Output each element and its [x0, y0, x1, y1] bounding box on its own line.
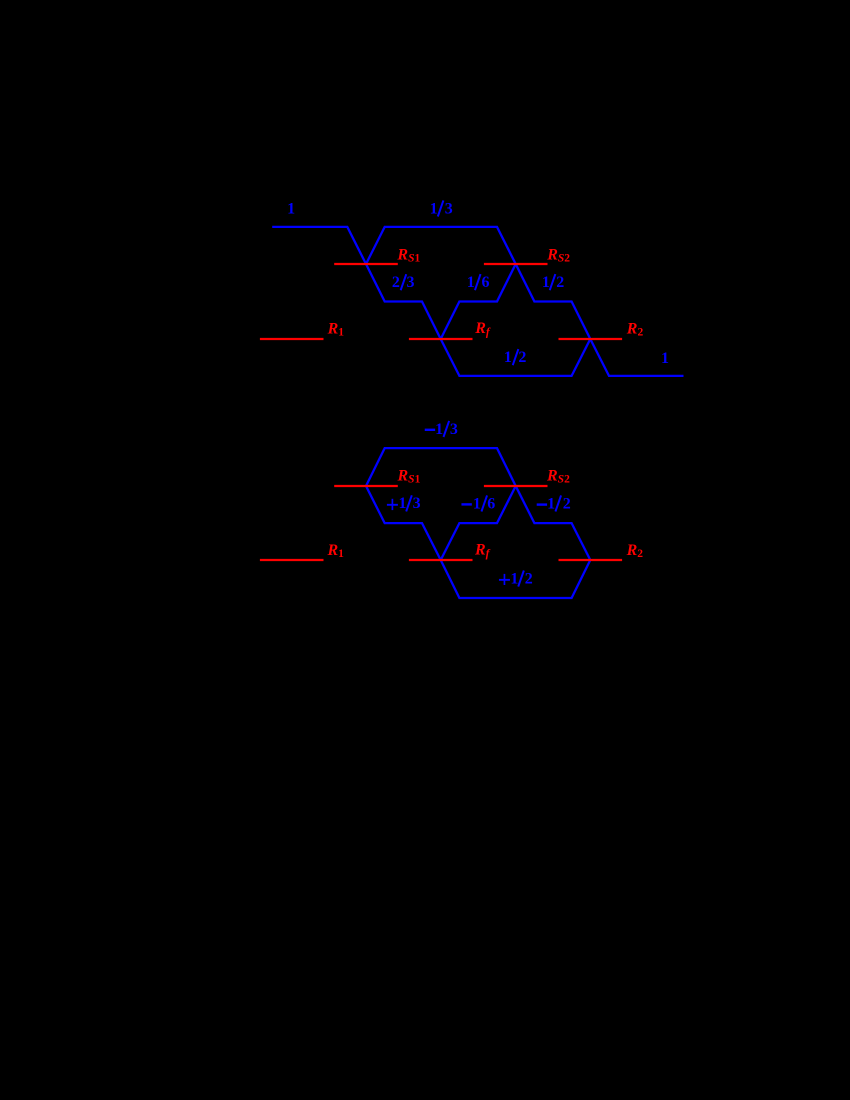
wire: +1/3 loop current RS1 to Rf	[366, 486, 441, 560]
wire: 2/3 branch RS1 to Rf	[366, 264, 441, 339]
value label 1/2 (lower)	[504, 349, 527, 366]
svg-text:1: 1	[547, 495, 555, 512]
resistor Rf (diagram 2)	[409, 559, 473, 561]
resistor R1 (diagram 2)	[260, 559, 324, 561]
wire: -1/3 loop current RS1 to RS2	[366, 448, 516, 486]
svg-text:2: 2	[518, 349, 526, 366]
wire: 1/6 branch Rf to RS2	[441, 264, 516, 339]
svg-text:1: 1	[287, 200, 295, 217]
resistor RS1 (diagram 2)	[334, 485, 398, 487]
svg-text:1: 1	[435, 421, 443, 438]
svg-text:1: 1	[473, 495, 481, 512]
wire: +1/2 loop current Rf to R2	[441, 560, 591, 598]
resistor R1 (diagram 1)	[260, 338, 324, 340]
svg-text:6: 6	[487, 495, 495, 512]
resistor RS1 (diagram 1)	[334, 263, 398, 265]
wire: 1/2 branch RS2 to R2	[516, 264, 591, 339]
svg-text:1: 1	[430, 200, 438, 217]
svg-text:3: 3	[450, 421, 458, 438]
svg-text:1: 1	[504, 349, 512, 366]
wire: output current 1 from R2	[590, 339, 683, 376]
value label +1/3	[387, 495, 421, 512]
svg-text:1: 1	[510, 570, 518, 587]
svg-text:3: 3	[445, 200, 453, 217]
svg-text:1: 1	[398, 495, 406, 512]
resistor RS2 (diagram 1)	[484, 263, 548, 265]
resistor Rf (diagram 1)	[409, 338, 473, 340]
value label +1/2	[499, 570, 533, 587]
value label 1/2 (upper)	[542, 274, 564, 291]
svg-text:3: 3	[413, 495, 421, 512]
svg-text:2: 2	[556, 274, 564, 291]
value label 1/6	[467, 274, 490, 291]
wire: 1/2 branch Rf to R2	[441, 339, 591, 376]
resistor RS2 (diagram 2)	[484, 485, 548, 487]
svg-text:2: 2	[525, 570, 533, 587]
wire: 1/3 branch RS1 to RS2	[366, 227, 516, 264]
value label -1/3	[425, 421, 458, 438]
svg-text:6: 6	[481, 274, 489, 291]
value label -1/2	[537, 495, 571, 512]
svg-text:2: 2	[563, 495, 571, 512]
svg-text:1: 1	[661, 350, 669, 367]
wire: -1/6 loop current Rf to RS2	[441, 486, 516, 560]
svg-text:2: 2	[392, 274, 400, 291]
wire: input current 1 into node RS1	[272, 227, 366, 264]
value label -1/6	[461, 495, 495, 512]
resistor R2 (diagram 2)	[559, 559, 623, 561]
value label 1/3	[430, 200, 453, 217]
resistor R2 (diagram 1)	[559, 338, 623, 340]
value label 2/3	[392, 274, 415, 291]
svg-text:1: 1	[542, 274, 550, 291]
svg-text:3: 3	[407, 274, 415, 291]
svg-text:1: 1	[467, 274, 475, 291]
wire: -1/2 loop current RS2 to R2	[516, 486, 591, 560]
